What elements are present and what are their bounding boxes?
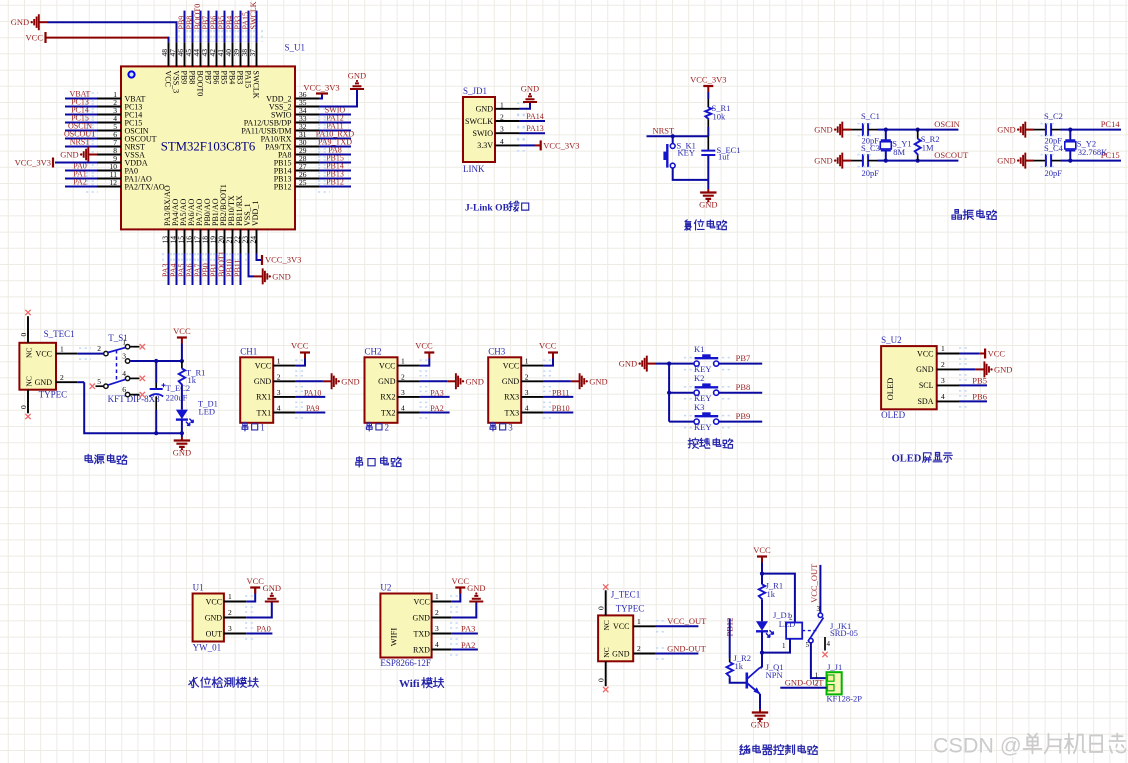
wire ground to capacitor S_C3 — [851, 160, 863, 162]
svg-text:RX1: RX1 — [256, 393, 271, 402]
display connector S_U2 OLED body — [881, 346, 937, 409]
svg-text:PB11: PB11 — [233, 260, 242, 278]
svg-text:PB7: PB7 — [203, 71, 212, 85]
wire VCC node to relay coil — [762, 574, 795, 623]
wire net PA10_RXD to MCU pin 31 — [319, 138, 351, 140]
S_U2 pin 1 VCC — [937, 353, 959, 355]
svg-text:OLED: OLED — [892, 454, 922, 465]
MCU pin 43 PB7 — [208, 42, 210, 66]
wire S_U2 SDA net PB6 — [959, 400, 987, 402]
svg-text:VCC: VCC — [753, 545, 771, 555]
S_TEC1 pin 1 VCC — [56, 353, 77, 355]
key K1 KEY — [694, 361, 699, 366]
svg-text:OSCIN: OSCIN — [934, 119, 960, 129]
wire net PB12 to MCU pin 25 — [319, 186, 351, 188]
wire node to net PC14 — [1070, 129, 1121, 131]
wire net PA7 at MCU pin 17 — [200, 254, 202, 286]
wire VCC_3V3 to resistor S_R1 — [707, 92, 709, 99]
MCU pin 48 VCC — [168, 42, 170, 66]
wire net VBAT to MCU pin 1 — [65, 98, 97, 100]
wire net BOOT0 to MCU pin 44 — [200, 11, 202, 43]
svg-text:GND: GND — [994, 364, 1012, 374]
wire S_EC1 to bottom rail — [707, 155, 709, 180]
power flag VCC power circuit — [177, 336, 187, 338]
svg-text:3: 3 — [941, 376, 945, 385]
MCU pin 19 PB1/AO — [216, 229, 218, 253]
U2 pin 2 GND — [432, 617, 452, 619]
MCU pin 27 PB14 — [295, 170, 319, 172]
MCU pin 30 PA9/TX — [295, 146, 319, 148]
MCU pin 25 PB12 — [295, 186, 319, 188]
svg-text:NC: NC — [602, 620, 611, 630]
MCU pin 41 PB5 — [224, 42, 226, 66]
svg-text:GND: GND — [997, 156, 1015, 166]
svg-text:VCC_OUT: VCC_OUT — [667, 616, 707, 626]
wire net PB7 to MCU pin 43 — [208, 11, 210, 43]
MCU pin 21 PB10/TX — [232, 229, 234, 253]
wire net PC13 to MCU pin 2 — [65, 106, 97, 108]
capacitor S_C4 20pF — [1046, 154, 1051, 167]
MCU pin 42 PB6 — [216, 42, 218, 66]
ground power circuit — [181, 437, 183, 440]
svg-text:VCC: VCC — [206, 597, 222, 606]
wire net PC14 to MCU pin 3 — [65, 114, 97, 116]
svg-text:32.768K: 32.768K — [1078, 147, 1108, 157]
capacitor S_EC1 1uf — [701, 151, 715, 155]
wire CH2 TX net PA2 — [420, 412, 450, 414]
svg-text:PB3: PB3 — [235, 71, 244, 85]
capacitor S_C1 20pF — [863, 123, 868, 136]
wire MCU pin 9 VDDA to VCC_3V3 — [55, 162, 97, 164]
svg-text:TX2: TX2 — [381, 408, 396, 417]
wire net PB13 to MCU pin 26 — [319, 178, 351, 180]
wire S_R1 to NRST node — [707, 119, 709, 127]
connector CH3 serial body — [488, 357, 521, 423]
wire net PA15 to MCU pin 38 — [248, 11, 250, 43]
CH2 pin 3 RX2 — [398, 396, 420, 398]
wire U2 RXD net PA2 — [451, 649, 478, 651]
wire net PC15 to MCU pin 4 — [65, 122, 97, 124]
svg-text:VCC: VCC — [379, 361, 395, 370]
ground at capacitor S_C1 — [842, 129, 851, 131]
MCU pin 29 PA8 — [295, 154, 319, 156]
wire CH2 RX net PA3 — [420, 396, 450, 398]
resistor J_R1 1k — [759, 584, 765, 600]
svg-text:RX3: RX3 — [504, 393, 519, 402]
svg-text:PA9: PA9 — [306, 404, 320, 413]
svg-text:GND: GND — [619, 359, 637, 369]
U1 pin 2 GND — [224, 617, 246, 619]
svg-text:1k: 1k — [188, 375, 197, 385]
wire net PB4 to MCU pin 40 — [232, 11, 234, 43]
svg-text:1uf: 1uf — [718, 152, 730, 162]
svg-text:1k: 1k — [767, 589, 776, 599]
svg-text:GND: GND — [60, 150, 78, 160]
U2 pin 4 RXD — [432, 649, 452, 651]
svg-text:PB9: PB9 — [179, 71, 188, 85]
transistor J_Q1 NPN — [745, 673, 748, 689]
junction node — [884, 128, 888, 132]
svg-text:220uF: 220uF — [166, 393, 188, 403]
svg-text:NC: NC — [25, 348, 34, 358]
power flag VCC U1 — [250, 586, 260, 588]
resistor S_R2 1M — [915, 139, 921, 156]
svg-text:GND: GND — [589, 376, 607, 386]
ground at capacitor S_C4 — [1025, 160, 1034, 162]
wire S_U2 SCL net PB5 — [959, 384, 987, 386]
wire VCC flag to node — [181, 344, 183, 362]
S_TEC1 shell pin 0 top — [27, 316, 29, 343]
J_J1 pin 2 wire GND-OUT — [780, 687, 826, 689]
junction node — [1068, 128, 1072, 132]
LED T_D1 — [176, 410, 188, 420]
svg-text:OLED: OLED — [885, 378, 895, 401]
crystal S_Y2 32.768K — [1069, 130, 1071, 140]
wire NRST node to capacitor S_EC1 — [707, 136, 709, 150]
MCU pin 33 PA12/USB/DP — [295, 122, 319, 124]
wire CH2 VCC to flag — [420, 359, 429, 366]
relay coil J_JK1 SRD-05 — [786, 623, 802, 639]
MCU pin 40 PB4 — [232, 42, 234, 66]
wire S_JD1 pin 4 to VCC_3V3 — [519, 144, 535, 146]
ground U1 — [265, 596, 279, 602]
svg-text:3: 3 — [525, 388, 529, 397]
wire ground to capacitor S_C4 — [1034, 160, 1046, 162]
svg-text:PA2/TX/AO: PA2/TX/AO — [125, 182, 165, 191]
relay switch dashed link — [802, 630, 818, 632]
CH2 pin 1 VCC — [398, 365, 420, 367]
svg-text:VCC: VCC — [163, 71, 172, 87]
svg-text:24: 24 — [249, 236, 258, 244]
wire GND to MCU pin 47 — [48, 22, 177, 42]
wire S_JD1 pin 2 net PA14 — [519, 120, 545, 122]
svg-text:GND: GND — [814, 125, 832, 135]
T_S1 pin 5 no-connect — [96, 385, 104, 387]
ground CH1 — [323, 380, 332, 382]
svg-text:PA0: PA0 — [257, 624, 271, 634]
MCU pin 4 PC15 — [97, 122, 121, 124]
connector CH1 serial body — [240, 357, 273, 423]
wire net PA9_TXD to MCU pin 30 — [319, 146, 351, 148]
wire S_K1 to bottom rail — [673, 168, 709, 180]
wire relay coil to collector node — [762, 639, 790, 653]
title key circuit — [688, 438, 698, 448]
wire MCU pin 36 VDD_2 to VCC_3V3 — [319, 94, 322, 99]
svg-text:12: 12 — [110, 178, 118, 187]
wire CH1 VCC to flag — [296, 359, 305, 366]
power flag VCC_3V3 at MCU pin 36 — [316, 92, 328, 94]
wire CH3 VCC to flag — [544, 359, 553, 366]
junction node — [884, 159, 888, 163]
U2 pin 1 VCC — [432, 601, 452, 603]
wire net PA1 to MCU pin 11 — [65, 178, 97, 180]
svg-text:GND: GND — [521, 84, 539, 94]
svg-text:VSS_3: VSS_3 — [171, 71, 180, 94]
CH3 pin 4 TX3 — [521, 412, 543, 414]
svg-text:1: 1 — [60, 345, 64, 354]
svg-text:37: 37 — [248, 49, 257, 57]
MCU pin 35 VSS_2 — [295, 106, 319, 108]
svg-text:WIFI: WIFI — [388, 628, 398, 647]
junction collector node — [760, 651, 764, 655]
svg-text:1: 1 — [525, 357, 529, 366]
wire CH1 GND to ground — [296, 380, 323, 382]
relay armature — [808, 618, 824, 642]
wire net SWIO to MCU pin 34 — [319, 114, 351, 116]
wire emitter to ground — [759, 694, 761, 709]
junction node — [1068, 159, 1072, 163]
ground CH2 — [447, 380, 456, 382]
wire MCU pin 23 VSS_1 to ground — [249, 254, 255, 277]
wire S_U2 VCC to flag — [959, 353, 979, 355]
wire U2 GND to ground — [451, 603, 476, 618]
wire ground to capacitor S_C2 — [1034, 129, 1046, 131]
bottom rail wire — [84, 382, 182, 433]
CH2 pin 2 GND — [398, 380, 420, 382]
MCU pin 14 PA4/AO — [176, 229, 178, 253]
svg-text:LED: LED — [779, 619, 796, 629]
wire J_R2 to transistor base — [730, 677, 746, 682]
MCU pin 12 PA2/TX/AO — [97, 186, 121, 188]
svg-text:2: 2 — [277, 372, 281, 381]
svg-text:GND: GND — [413, 613, 431, 622]
svg-text:LED: LED — [199, 407, 216, 417]
svg-text:NRST: NRST — [653, 126, 676, 136]
svg-text:J-Link OB: J-Link OB — [465, 203, 510, 214]
svg-text:GND: GND — [916, 365, 934, 374]
svg-text:GND: GND — [476, 105, 494, 114]
svg-text:VDD_1: VDD_1 — [251, 201, 260, 226]
wire net PB3 to MCU pin 39 — [240, 11, 242, 43]
wire S_TEC1 VCC to switch T_S1 — [77, 353, 103, 355]
S_U2 pin 4 SDA — [937, 400, 959, 402]
wire J_D1 to collector node — [761, 632, 763, 653]
svg-text:SCL: SCL — [919, 381, 934, 390]
svg-text:2: 2 — [385, 423, 390, 433]
CH1 pin 4 TX1 — [273, 412, 295, 414]
svg-text:PB12: PB12 — [274, 182, 292, 191]
wire key K3 to net PB9 — [719, 421, 762, 423]
svg-text:GND: GND — [173, 448, 191, 458]
svg-text:PB8: PB8 — [736, 382, 751, 392]
svg-text:K1: K1 — [694, 344, 704, 354]
svg-text:PB5: PB5 — [219, 71, 228, 85]
S_U2 pin 2 GND — [937, 368, 959, 370]
MCU pin 46 PB9 — [184, 42, 186, 66]
svg-text:PB10: PB10 — [552, 404, 570, 413]
svg-text:U1: U1 — [193, 583, 204, 593]
svg-text:PB6: PB6 — [972, 391, 987, 401]
svg-text:PC14: PC14 — [1101, 119, 1121, 129]
power flag VCC CH1 — [300, 351, 310, 353]
svg-text:2: 2 — [97, 344, 101, 353]
wire net PB6 to MCU pin 42 — [216, 11, 218, 43]
svg-text:SWCLK: SWCLK — [251, 71, 260, 99]
svg-text:PB6: PB6 — [211, 71, 220, 85]
svg-text:CH3: CH3 — [488, 347, 506, 357]
title power circuit — [85, 454, 93, 462]
wire CH3 TX net PB10 — [544, 412, 574, 414]
svg-text:VCC: VCC — [415, 341, 433, 351]
svg-text:PB7: PB7 — [736, 353, 751, 363]
svg-text:S_JD1: S_JD1 — [463, 86, 487, 96]
svg-text:GND: GND — [378, 377, 396, 386]
MCU pin 11 PA1/AO — [97, 178, 121, 180]
wire U1 VCC to flag — [246, 593, 255, 602]
svg-text:PA13: PA13 — [526, 124, 544, 133]
S_JD1 pin 4 3.3V — [495, 144, 519, 146]
svg-text:SWCLK: SWCLK — [465, 117, 493, 126]
svg-text:NPN: NPN — [766, 670, 783, 680]
svg-text:YW_01: YW_01 — [193, 643, 222, 653]
wire S_C3 to node — [868, 160, 877, 162]
svg-text:GND: GND — [272, 271, 290, 281]
S_TEC1 pin 2 GND — [56, 381, 77, 383]
MCU pin 6 OSCOUT — [97, 138, 121, 140]
svg-text:VCC: VCC — [988, 349, 1006, 359]
svg-text:4: 4 — [941, 392, 945, 401]
svg-text:4: 4 — [435, 640, 439, 649]
svg-text:VCC: VCC — [539, 341, 557, 351]
wire CH1 TX net PA9 — [296, 412, 326, 414]
svg-text:PB12: PB12 — [326, 178, 344, 187]
wire net BOOT1 at MCU pin 20 — [224, 254, 226, 286]
wire bus to key K2 — [669, 392, 694, 394]
svg-text:PA3: PA3 — [430, 388, 444, 397]
svg-text:1: 1 — [122, 337, 126, 346]
MCU pin-1 marker — [128, 71, 134, 77]
wire S_C1 to node — [868, 129, 877, 131]
wire S_JD1 pin 3 net PA13 — [519, 132, 545, 134]
svg-text:GND: GND — [467, 583, 485, 593]
svg-text:0: 0 — [597, 606, 606, 610]
svg-text:S_TEC1: S_TEC1 — [44, 329, 75, 339]
junction bottom rail — [154, 431, 158, 435]
power flag VCC_3V3 at MCU pin 9 — [52, 158, 54, 168]
svg-text:PB8: PB8 — [187, 71, 196, 85]
svg-text:25: 25 — [299, 178, 307, 187]
svg-text:2: 2 — [500, 113, 504, 122]
MCU pin 18 PB0/AO — [208, 229, 210, 253]
svg-text:GND: GND — [699, 200, 717, 210]
title water level module — [189, 677, 199, 687]
ground at capacitor S_C3 — [842, 160, 851, 162]
ground OLED — [976, 368, 985, 370]
svg-text:GND: GND — [997, 125, 1015, 135]
wire net NRST — [647, 135, 709, 137]
wire T_S1 pin 3 to VCC node — [130, 360, 182, 362]
T_S1 pin 1 no-connect — [130, 346, 139, 348]
svg-text:8M: 8M — [893, 147, 905, 157]
wire net PB10 at MCU pin 21 — [232, 254, 234, 286]
key S_K1 KEY — [670, 144, 675, 149]
ground relay circuit — [759, 709, 761, 712]
connector value serial-1 — [242, 422, 248, 431]
J_TEC1 shell pin 0 bottom — [605, 661, 607, 686]
wire bus to key K1 — [669, 363, 694, 365]
svg-text:GND: GND — [814, 156, 832, 166]
junction at VCC column — [180, 359, 184, 363]
power flag VCC U2 — [455, 586, 465, 588]
MCU pin 28 PB15 — [295, 162, 319, 164]
svg-text:PA3: PA3 — [461, 624, 475, 634]
svg-text:S_C3: S_C3 — [861, 143, 880, 153]
svg-text:1M: 1M — [922, 143, 934, 153]
title relay control circuit — [740, 745, 750, 755]
module U1 water level body — [193, 594, 224, 642]
svg-text:VCC: VCC — [613, 622, 629, 631]
S_TEC1 shell pin 0 bottom — [27, 390, 29, 414]
svg-text:2: 2 — [637, 644, 641, 653]
wire resistor S_R2 to node — [917, 155, 919, 160]
wire CH1 RX net PA10 — [296, 396, 326, 398]
MCU pin 24 VDD_1 — [256, 229, 258, 253]
ground CH3 — [571, 380, 580, 382]
svg-text:2: 2 — [525, 372, 529, 381]
MCU pin 15 PA5/AO — [184, 229, 186, 253]
svg-text:NC: NC — [602, 647, 611, 657]
ground at capacitor S_C2 — [1025, 129, 1034, 131]
wire key K2 to net PB8 — [719, 392, 762, 394]
U1 pin 3 OUT — [224, 633, 246, 635]
wire net PA4 at MCU pin 14 — [176, 254, 178, 286]
svg-text:VCC: VCC — [36, 349, 52, 358]
wire net PA8 to MCU pin 29 — [319, 154, 351, 156]
MCU pin 39 PB3 — [240, 42, 242, 66]
svg-text:RX2: RX2 — [380, 393, 395, 402]
LED J_D1 — [756, 621, 768, 631]
svg-text:3: 3 — [500, 125, 504, 134]
CH3 pin 2 GND — [521, 380, 543, 382]
svg-text:2: 2 — [435, 608, 439, 617]
T_S1 pin 4 no-connect — [130, 377, 139, 379]
svg-text:PA10: PA10 — [304, 388, 322, 397]
wire T_D1 to ground rail — [181, 420, 183, 434]
MCU pin 23 VSS_1 — [248, 229, 250, 253]
S_JD1 pin 3 SWIO — [495, 132, 519, 134]
svg-text:J_TEC1: J_TEC1 — [611, 590, 641, 600]
wire S_TEC1 GND to rail — [77, 381, 84, 383]
connector J_TEC1 TYPEC body — [598, 615, 633, 661]
MCU pin 10 PA0 — [97, 170, 121, 172]
svg-text:1k: 1k — [735, 661, 744, 671]
power flag VCC CH3 — [548, 351, 558, 353]
svg-text:VCC: VCC — [26, 33, 44, 43]
MCU pin 36 VDD_2 — [295, 98, 319, 100]
svg-text:TX3: TX3 — [505, 408, 520, 417]
wire U1 OUT net PA0 — [246, 633, 272, 635]
wire node to capacitor T_EC2 — [155, 361, 157, 383]
svg-text:2: 2 — [941, 360, 945, 369]
svg-text:PA2: PA2 — [461, 640, 475, 650]
power flag VCC CH2 — [424, 351, 434, 353]
svg-text:GND: GND — [35, 378, 53, 387]
wire U1 GND to ground — [246, 603, 271, 618]
wire key K1 to net PB7 — [719, 363, 762, 365]
MCU pin 22 PB11/RX — [240, 229, 242, 253]
wire rail to ground — [181, 433, 183, 437]
wire net PA12 to MCU pin 33 — [319, 122, 351, 124]
svg-text:GND: GND — [348, 71, 366, 81]
MCU pin 13 PA3/RX/AO — [168, 229, 170, 253]
svg-text:1: 1 — [401, 357, 405, 366]
svg-text:TYPEC: TYPEC — [616, 604, 645, 614]
svg-text:3: 3 — [401, 388, 405, 397]
wire CH2 GND to ground — [420, 380, 447, 382]
title reset circuit — [685, 220, 692, 230]
S_U2 pin 3 SCL — [937, 384, 959, 386]
MCU pin 5 OSCIN — [97, 130, 121, 132]
